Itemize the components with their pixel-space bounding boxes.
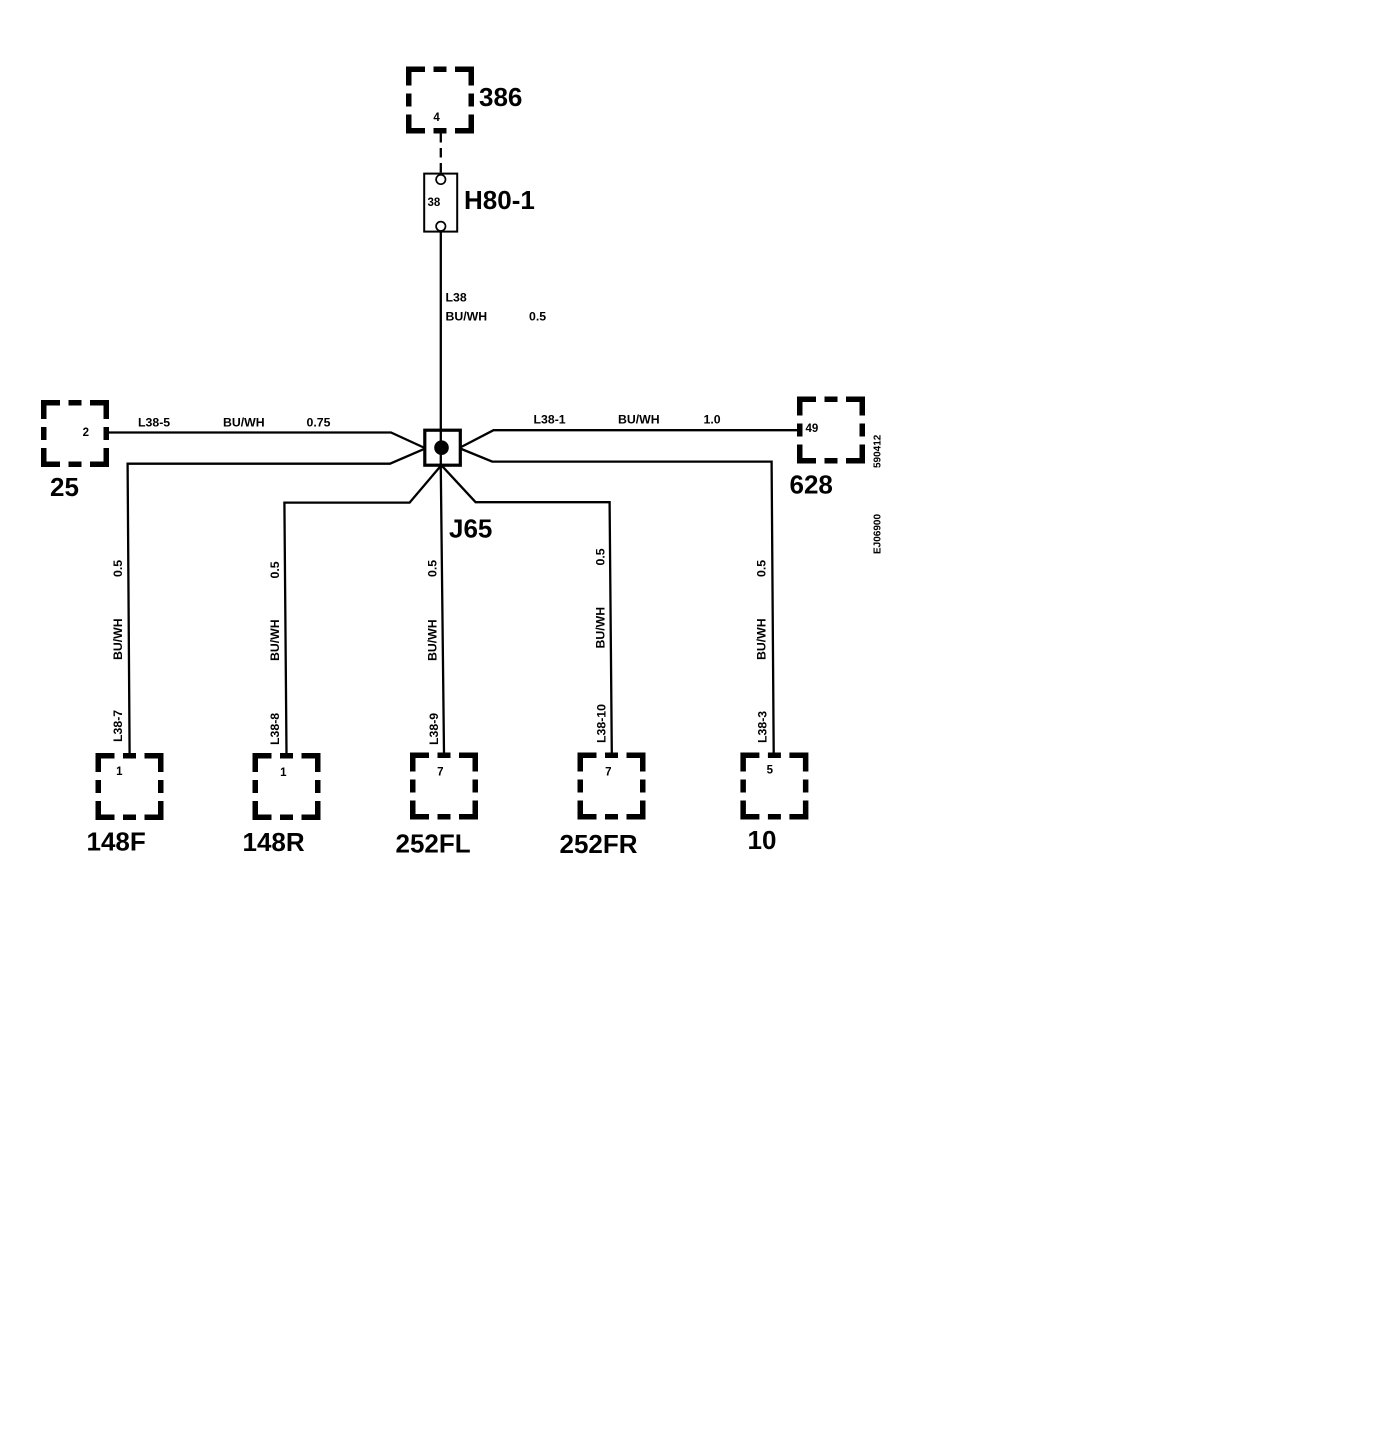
label 628 (790, 470, 833, 500)
svg-text:252FR: 252FR (560, 829, 638, 859)
splice J65 (425, 430, 461, 465)
pin 2 of connector 25 (83, 427, 89, 439)
svg-text:L38-3: L38-3 (756, 711, 770, 743)
wire gauge 0.5 drop 1 (111, 560, 125, 577)
svg-text:EJ06900: EJ06900 (873, 514, 884, 554)
connector 148R dashed box (255, 756, 318, 818)
svg-text:0.5: 0.5 (594, 548, 608, 565)
wire gauge 0.5 drop 5 (755, 560, 769, 577)
pin 1 of connector 148F (116, 766, 123, 778)
svg-text:L38-9: L38-9 (427, 713, 441, 745)
svg-text:L38-8: L38-8 (268, 713, 282, 745)
wire label L38 (446, 291, 467, 305)
wire color label BU/WH (446, 310, 488, 324)
svg-text:L38-1: L38-1 (534, 413, 566, 427)
svg-text:L38-7: L38-7 (111, 710, 125, 742)
wire color BU/WH drop 1 (111, 618, 125, 660)
svg-text:7: 7 (605, 767, 611, 779)
wire gauge label 1.0 (704, 413, 721, 427)
wire gauge 0.5 drop 3 (426, 560, 440, 577)
svg-text:BU/WH: BU/WH (594, 607, 608, 649)
wire label L38-9 (427, 713, 441, 745)
connector 148F dashed box (98, 756, 161, 818)
svg-text:10: 10 (748, 825, 777, 855)
svg-text:1: 1 (116, 766, 123, 778)
wire color BU/WH drop 3 (426, 619, 440, 661)
wire L38-7 to connector 148F (128, 449, 425, 753)
svg-text:7: 7 (437, 767, 443, 779)
wire L38-1 to connector 628 (460, 430, 797, 447)
label J65 (449, 514, 492, 544)
wire label L38-5 (138, 416, 170, 430)
svg-text:L38: L38 (446, 291, 467, 305)
connector 252FL dashed box (413, 755, 476, 817)
pin 1 of connector 148R (280, 767, 287, 779)
wire color BU/WH drop 5 (755, 618, 769, 660)
wire L38-8 to connector 148R (284, 465, 441, 753)
svg-text:BU/WH: BU/WH (755, 618, 769, 660)
svg-text:0.5: 0.5 (111, 560, 125, 577)
svg-text:0.5: 0.5 (426, 560, 440, 577)
svg-text:25: 25 (50, 472, 79, 502)
svg-text:1.0: 1.0 (704, 413, 721, 427)
svg-text:BU/WH: BU/WH (268, 619, 282, 661)
svg-text:L38-5: L38-5 (138, 416, 170, 430)
label 148R (243, 827, 305, 857)
pin 38 of fuse H80-1 (428, 197, 441, 209)
svg-text:38: 38 (428, 197, 441, 209)
connector 25 dashed box (44, 403, 107, 465)
svg-text:0.5: 0.5 (755, 560, 769, 577)
pin 5 of connector 10 (767, 765, 774, 777)
svg-text:BU/WH: BU/WH (446, 310, 488, 324)
wire color label BU/WH right (618, 413, 660, 427)
svg-text:590412: 590412 (873, 434, 884, 468)
svg-text:2: 2 (83, 427, 89, 439)
wire gauge label 0.75 (307, 416, 331, 430)
svg-text:0.5: 0.5 (529, 310, 546, 324)
svg-text:0.75: 0.75 (307, 416, 331, 430)
wire label L38-10 (595, 704, 609, 743)
connector 252FR dashed box (580, 755, 643, 817)
wire label L38-3 (756, 711, 770, 743)
label 148F (87, 827, 146, 857)
label 252FR (560, 829, 638, 859)
svg-text:148F: 148F (87, 827, 146, 857)
drawing number 590412 (873, 434, 884, 468)
svg-text:BU/WH: BU/WH (618, 413, 660, 427)
label 10 (748, 825, 777, 855)
label 252FL (396, 829, 471, 859)
drawing number EJ06900 (873, 514, 884, 554)
pin 4 of connector 386 (433, 112, 440, 124)
svg-text:J65: J65 (449, 514, 492, 544)
wire gauge 0.5 drop 4 (594, 548, 608, 565)
connector 628 dashed box (800, 399, 863, 461)
svg-text:BU/WH: BU/WH (111, 618, 125, 660)
label H80-1 (464, 185, 535, 215)
wire label L38-8 (268, 713, 282, 745)
wire dashed link 386 to H80-1 (440, 133, 442, 174)
pin 7 of connector 252FL (437, 767, 443, 779)
wire L38-5 to connector 25 (109, 433, 425, 449)
label 25 (50, 472, 79, 502)
wire L38-10 to connector 252FR (441, 465, 612, 753)
wire label L38-7 (111, 710, 125, 742)
wire gauge label 0.5 (529, 310, 546, 324)
svg-text:252FL: 252FL (396, 829, 471, 859)
svg-text:H80-1: H80-1 (464, 185, 535, 215)
connector 10 dashed box (743, 755, 806, 817)
svg-text:L38-10: L38-10 (595, 704, 609, 743)
label 386 (479, 82, 522, 112)
svg-text:628: 628 (790, 470, 833, 500)
svg-text:386: 386 (479, 82, 522, 112)
wire L38 main vertical from H80-1 through J65 to 252FL (441, 232, 444, 754)
wire color label BU/WH left (223, 416, 265, 430)
fuse H80-1 (424, 174, 457, 232)
svg-text:BU/WH: BU/WH (426, 619, 440, 661)
wire color BU/WH drop 4 (594, 607, 608, 649)
pin 49 of connector 628 (806, 423, 819, 435)
wire color BU/WH drop 2 (268, 619, 282, 661)
pin 7 of connector 252FR (605, 767, 611, 779)
svg-text:5: 5 (767, 765, 774, 777)
svg-text:0.5: 0.5 (268, 561, 282, 578)
svg-text:148R: 148R (243, 827, 305, 857)
wire label L38-1 (534, 413, 566, 427)
svg-text:4: 4 (433, 112, 440, 124)
connector 386 dashed box (409, 69, 472, 131)
wire L38-3 to connector 10 (460, 449, 774, 754)
svg-text:BU/WH: BU/WH (223, 416, 265, 430)
svg-text:49: 49 (806, 423, 819, 435)
svg-text:1: 1 (280, 767, 287, 779)
wire gauge 0.5 drop 2 (268, 561, 282, 578)
